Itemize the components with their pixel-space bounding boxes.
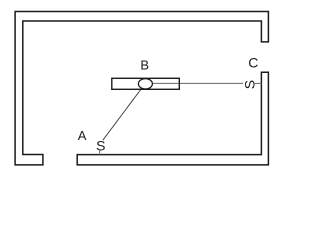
svg-text:S: S [241, 80, 257, 89]
svg-text:B: B [140, 57, 149, 72]
svg-text:C: C [248, 54, 258, 70]
rope from C hook to right wall [255, 82, 262, 84]
plank B rectangle [112, 78, 180, 89]
svg-text:S: S [96, 137, 105, 153]
pivot ellipse [138, 79, 152, 89]
wall: bottom + right run [77, 72, 268, 165]
diagonal rope from pivot to A hook [103, 87, 143, 141]
rope from A hook to floor [99, 150, 101, 154]
wall: left + top run with door stubs [15, 12, 268, 165]
svg-text:A: A [78, 128, 87, 143]
rope from pivot to C hook [152, 82, 243, 84]
